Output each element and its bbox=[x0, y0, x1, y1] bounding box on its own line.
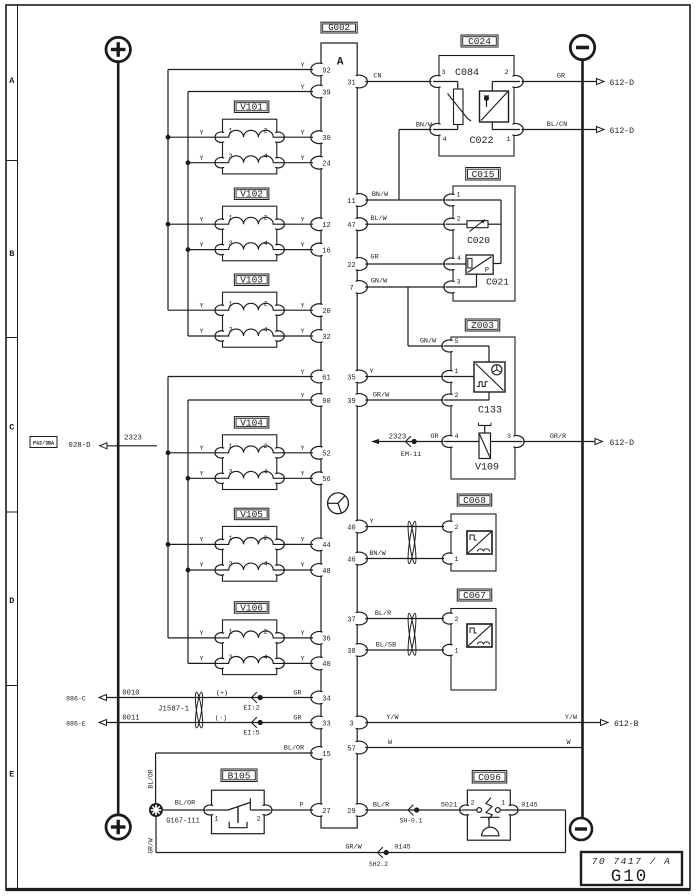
svg-text:1: 1 bbox=[506, 136, 510, 144]
injector V102 pin 2 notch bbox=[271, 220, 282, 229]
svg-text:028-D: 028-D bbox=[68, 442, 91, 450]
injector V103 pin 4 notch bbox=[271, 332, 282, 341]
svg-text:GR: GR bbox=[370, 254, 378, 262]
Z003 pin 2 notch bbox=[444, 395, 457, 405]
connector pin 47 (right edge) bbox=[350, 219, 365, 230]
injector V105 pin 3 notch bbox=[217, 566, 228, 575]
battery + symbol bottom bbox=[106, 815, 130, 839]
component C015 body bbox=[453, 186, 515, 301]
injector V104 coil 1-2 bbox=[217, 446, 286, 453]
svg-text:BN/W: BN/W bbox=[416, 122, 433, 130]
svg-text:Y: Y bbox=[199, 242, 203, 250]
svg-text:2: 2 bbox=[263, 128, 267, 136]
svg-text:V106: V106 bbox=[240, 602, 263, 613]
svg-text:886-E: 886-E bbox=[66, 720, 86, 727]
connector pin 39 (right edge) bbox=[350, 394, 365, 405]
svg-text:J1587-1: J1587-1 bbox=[158, 706, 190, 714]
svg-text:27: 27 bbox=[322, 808, 330, 816]
wire bus to V102 pin3 bbox=[188, 249, 217, 251]
svg-text:Y: Y bbox=[199, 471, 203, 479]
svg-text:Y: Y bbox=[199, 328, 203, 336]
svg-text:7: 7 bbox=[349, 285, 353, 293]
injector V103 pin 3 notch bbox=[217, 332, 228, 341]
injector V102 label bbox=[234, 188, 269, 200]
injector V102 pin 3 notch bbox=[217, 245, 228, 254]
C067 sensor sine icon bbox=[478, 642, 490, 645]
svg-text:5021: 5021 bbox=[441, 802, 457, 810]
svg-text:C020: C020 bbox=[467, 235, 490, 246]
wire V102 pin2 to connector bbox=[283, 223, 313, 225]
wire pin34 row (0010/GR) bbox=[107, 697, 313, 699]
C015 pin 2 notch bbox=[446, 219, 459, 229]
svg-text:2: 2 bbox=[263, 443, 267, 451]
svg-text:V101: V101 bbox=[240, 102, 263, 113]
wire 2323 interconnect bbox=[108, 445, 158, 447]
C024 pin 3 notch bbox=[432, 76, 445, 86]
injector V104 pin 4 notch bbox=[271, 474, 282, 483]
junction dot inner bus V105 bbox=[186, 568, 191, 573]
C021 pressure sensor body bbox=[466, 255, 493, 274]
wire bus to V105 pin1 bbox=[168, 543, 217, 545]
svg-text:16: 16 bbox=[322, 247, 330, 255]
C096 pin 2 notch bbox=[462, 806, 473, 814]
wire pin15 BL/OR bbox=[156, 752, 313, 754]
svg-text:37: 37 bbox=[347, 616, 355, 624]
svg-text:4: 4 bbox=[263, 654, 267, 662]
component C015 label bbox=[466, 168, 501, 181]
Z003 pin 3 notch bbox=[508, 436, 521, 446]
connector pin 22 (right edge) bbox=[350, 258, 365, 269]
svg-text:C022: C022 bbox=[469, 136, 493, 147]
svg-text:47: 47 bbox=[347, 222, 355, 230]
component C024 label bbox=[461, 35, 498, 47]
svg-text:SH2.2: SH2.2 bbox=[369, 861, 388, 868]
svg-text:Y: Y bbox=[199, 562, 203, 570]
C096 spark gap zigzag bbox=[486, 798, 492, 820]
wire V101 pin4 to connector bbox=[283, 162, 313, 164]
svg-text:Y: Y bbox=[199, 656, 203, 664]
svg-text:C068: C068 bbox=[463, 495, 486, 506]
connector pin 20 (left edge) bbox=[314, 305, 329, 316]
svg-text:Y: Y bbox=[300, 471, 304, 479]
wire V103 pin4 to connector bbox=[283, 335, 313, 337]
injector V105 pin 1 notch bbox=[217, 540, 228, 549]
C067 sensor pulse icon bbox=[470, 628, 477, 633]
wire C024 pin4 (BN/W) down bbox=[399, 129, 432, 131]
component C067 body bbox=[451, 609, 496, 691]
svg-text:C084: C084 bbox=[455, 68, 479, 79]
wire pin7 branch GN/W to Z003 pin5 bbox=[407, 287, 409, 346]
svg-text:0010: 0010 bbox=[122, 690, 139, 698]
injector V101 coil 1-2 bbox=[217, 130, 286, 137]
svg-text:V102: V102 bbox=[240, 189, 263, 200]
C021 pressure sensor wire bbox=[446, 263, 466, 265]
svg-text:70 7417 / A: 70 7417 / A bbox=[592, 856, 672, 867]
component ref P42/3BA box bbox=[30, 437, 57, 448]
connector pin 48 (left edge) bbox=[314, 564, 329, 575]
svg-text:31: 31 bbox=[347, 79, 355, 87]
junction dot inner bus V102 bbox=[186, 247, 191, 252]
Z003 pin4 internal wire bbox=[444, 441, 479, 443]
injector V106 coil 1-2 bbox=[217, 631, 286, 638]
wire Z003 pin3 to ground feed (GR/R) bbox=[523, 441, 596, 443]
svg-text:48: 48 bbox=[322, 568, 330, 576]
svg-text:46: 46 bbox=[347, 556, 355, 564]
injector V106 pin 2 notch bbox=[271, 634, 282, 643]
svg-text:2: 2 bbox=[457, 216, 461, 223]
svg-text:SH-0.1: SH-0.1 bbox=[399, 818, 422, 825]
svg-text:BN/W: BN/W bbox=[372, 191, 389, 199]
wire pin31 to C024 pin3 (CN) bbox=[365, 81, 431, 83]
wire bus to V101 pin3 bbox=[188, 162, 217, 164]
svg-text:612-B: 612-B bbox=[614, 720, 639, 729]
svg-text:39: 39 bbox=[322, 89, 330, 97]
svg-text:4: 4 bbox=[457, 255, 461, 262]
battery + symbol top bbox=[106, 37, 130, 61]
injector V102 coil 3-4 bbox=[217, 243, 286, 250]
svg-text:56: 56 bbox=[322, 476, 330, 484]
wire bus to V101 pin1 bbox=[168, 136, 217, 138]
C022 sensor probe icon bbox=[484, 96, 489, 101]
twisted pair symbol C067 bbox=[406, 613, 417, 656]
svg-text:Y: Y bbox=[300, 216, 304, 224]
injector V101 pin 4 notch bbox=[271, 158, 282, 167]
wire bus to V102 pin1 bbox=[168, 223, 217, 225]
svg-text:P42/3BA: P42/3BA bbox=[33, 441, 54, 447]
connector pin 30 (left edge) bbox=[314, 132, 329, 143]
svg-text:32: 32 bbox=[322, 334, 330, 342]
svg-text:G167-111: G167-111 bbox=[166, 818, 200, 826]
component C068 label bbox=[457, 494, 492, 506]
injector V106 pin 4 notch bbox=[271, 659, 282, 668]
injector V101 label bbox=[234, 101, 269, 113]
svg-text:CN: CN bbox=[373, 73, 381, 81]
connector pin 24 (left edge) bbox=[314, 157, 329, 168]
Z003 pin 4 notch bbox=[444, 436, 457, 446]
Z003 pin1 internal wire bbox=[444, 376, 474, 378]
connector pin 12 (left edge) bbox=[314, 219, 329, 230]
svg-text:2: 2 bbox=[263, 535, 267, 543]
injector V101 pin 1 notch bbox=[217, 133, 228, 142]
svg-text:Y: Y bbox=[300, 129, 304, 137]
svg-text:92: 92 bbox=[322, 67, 330, 75]
C068 sensor body bbox=[467, 531, 492, 554]
interconnect arrow 612-D (row1) bbox=[597, 79, 605, 85]
svg-text:A: A bbox=[9, 76, 15, 86]
injector V105 pin 2 notch bbox=[271, 540, 282, 549]
svg-text:GR/W: GR/W bbox=[373, 392, 390, 400]
svg-text:22: 22 bbox=[347, 262, 355, 270]
wire pin7 to C015 pin3 (GN/W) bbox=[365, 286, 445, 288]
wire pin39 to inner bus bbox=[188, 91, 313, 93]
interconnect arrow 612-B bbox=[601, 720, 609, 726]
injector V106 pin 3 notch bbox=[217, 659, 228, 668]
splice chevron EI:2 bbox=[252, 692, 257, 703]
wire bus to V103 pin3 bbox=[188, 335, 217, 337]
C022 sensor rail bbox=[491, 82, 493, 92]
C068 sensor sine icon bbox=[478, 549, 490, 552]
component C068 body bbox=[451, 514, 496, 571]
svg-text:V109: V109 bbox=[475, 463, 499, 474]
svg-text:EI:2: EI:2 bbox=[243, 705, 259, 713]
svg-text:39: 39 bbox=[347, 398, 355, 406]
connector pin 57 (right edge) bbox=[350, 742, 365, 753]
connector pin 56 (left edge) bbox=[314, 473, 329, 484]
V109 solenoid diagonal bbox=[480, 434, 491, 458]
svg-text:G10: G10 bbox=[611, 867, 649, 887]
svg-text:30: 30 bbox=[322, 135, 330, 143]
svg-text:Y: Y bbox=[300, 84, 304, 92]
svg-text:1: 1 bbox=[215, 816, 219, 823]
C133 stepper motor circle bbox=[492, 365, 502, 375]
svg-text:5: 5 bbox=[455, 338, 459, 345]
connector pin 27 (left edge) bbox=[314, 804, 329, 815]
injector V105 body bbox=[223, 526, 277, 581]
C015 pin 3 notch bbox=[446, 282, 459, 292]
svg-text:Y: Y bbox=[300, 62, 304, 70]
connector pin 61 (left edge) bbox=[314, 371, 329, 382]
svg-text:BL/CN: BL/CN bbox=[547, 121, 567, 129]
svg-text:2: 2 bbox=[263, 301, 267, 309]
interconnect arrow 612-D (row3) bbox=[595, 439, 603, 445]
svg-text:4: 4 bbox=[442, 136, 446, 144]
svg-text:Y/W: Y/W bbox=[386, 714, 399, 722]
C067 pin 1 notch bbox=[445, 645, 457, 655]
svg-text:A: A bbox=[337, 57, 344, 69]
margin divider 4 bbox=[6, 685, 18, 687]
svg-text:Y: Y bbox=[300, 242, 304, 250]
svg-text:Y: Y bbox=[300, 562, 304, 570]
C020 temp sensor arrow bbox=[470, 220, 486, 232]
injector V103 pin 1 notch bbox=[217, 306, 228, 315]
svg-text:GR: GR bbox=[557, 73, 565, 81]
injector V103 coil 3-4 bbox=[217, 329, 286, 336]
svg-text:Y: Y bbox=[300, 445, 304, 453]
injector V106 label bbox=[234, 602, 269, 614]
svg-text:Y: Y bbox=[300, 155, 304, 163]
connector pin 36 (left edge) bbox=[314, 632, 329, 643]
splice chevron SH2.2 bbox=[378, 847, 383, 858]
injector V104 body bbox=[223, 435, 277, 490]
B105 switch blade bbox=[228, 803, 250, 811]
svg-text:35: 35 bbox=[347, 374, 355, 382]
C022 sensor body bbox=[480, 91, 509, 122]
wire V105 pin2 to connector bbox=[283, 543, 313, 545]
svg-text:GN/W: GN/W bbox=[371, 278, 388, 286]
Z003 pin3 internal wire bbox=[491, 441, 523, 443]
C024 pin 4 notch bbox=[432, 124, 445, 134]
svg-text:11: 11 bbox=[347, 198, 355, 206]
injector V104 label bbox=[234, 417, 269, 429]
svg-text:612-D: 612-D bbox=[610, 127, 635, 136]
svg-text:GR: GR bbox=[293, 690, 301, 698]
svg-text:2: 2 bbox=[455, 524, 459, 531]
svg-text:2: 2 bbox=[257, 816, 261, 823]
splice chevron SH-0.1 bbox=[408, 805, 413, 816]
injector V101 body bbox=[223, 119, 277, 174]
svg-text:BL/SB: BL/SB bbox=[376, 642, 396, 650]
wire V106 pin4 to connector bbox=[283, 662, 313, 664]
C067 sensor diagonal bbox=[468, 625, 491, 646]
interconnect 886-E bbox=[99, 720, 107, 726]
connector pin 31 (right edge) bbox=[350, 76, 365, 87]
outer injector bus (top) bbox=[167, 70, 169, 311]
junction dot inner bus V101 bbox=[186, 160, 191, 165]
wire C096 pin1 return loop bbox=[517, 809, 566, 811]
injector V103 pin 2 notch bbox=[271, 306, 282, 315]
interconnect arrow EM-11 left bbox=[371, 439, 379, 444]
C068 sensor diagonal bbox=[468, 532, 491, 553]
wire V103 pin2 to connector bbox=[283, 309, 313, 311]
C022 sensor diagonal bbox=[481, 92, 508, 121]
B105 pin 1 notch bbox=[206, 806, 217, 814]
ground - symbol top bbox=[570, 35, 594, 59]
junction dot inner bus V104 bbox=[186, 476, 191, 481]
wire V101 pin2 to connector bbox=[283, 136, 313, 138]
connector pin 44 (left edge) bbox=[314, 539, 329, 550]
interconnect 886-C bbox=[99, 695, 107, 701]
C084 thermistor rail bbox=[457, 82, 459, 90]
component C096 label bbox=[472, 771, 507, 784]
connector pin 39 (left edge) bbox=[314, 86, 329, 97]
svg-text:C024: C024 bbox=[468, 36, 491, 47]
injector V105 pin 4 notch bbox=[271, 566, 282, 575]
C068 sensor pulse icon bbox=[470, 535, 477, 540]
component B105 body bbox=[212, 790, 265, 834]
svg-text:G002: G002 bbox=[328, 23, 350, 33]
component C024 body bbox=[439, 56, 514, 157]
junction dot outer bus V102 bbox=[166, 222, 171, 227]
margin divider 1 bbox=[6, 160, 18, 162]
injector V103 label bbox=[234, 274, 269, 286]
svg-text:D: D bbox=[9, 596, 14, 606]
svg-text:24: 24 bbox=[322, 161, 330, 169]
connector pin 7 (right edge) bbox=[350, 281, 365, 292]
svg-text:EM-11: EM-11 bbox=[401, 451, 421, 459]
Z003 pin 1 notch bbox=[444, 371, 457, 381]
wire C024 pin1 to ground feed (BL/CN) bbox=[522, 129, 597, 131]
wire pin22 to C015 pin4 (GR) bbox=[365, 263, 445, 265]
C020 temp sensor body bbox=[467, 221, 488, 228]
connector pin 3 (right edge) bbox=[350, 717, 365, 728]
svg-text:1: 1 bbox=[457, 192, 461, 199]
svg-text:15: 15 bbox=[322, 751, 330, 759]
svg-text:E: E bbox=[9, 770, 14, 780]
svg-text:34: 34 bbox=[322, 695, 330, 703]
C024 pin 2 notch bbox=[507, 76, 520, 86]
svg-text:Y: Y bbox=[300, 393, 304, 401]
outer injector bus (bottom) bbox=[167, 377, 169, 638]
wire pin11 to C015 pin1 (BN/W) bbox=[365, 199, 445, 201]
svg-text:Z003: Z003 bbox=[471, 320, 494, 331]
wire V102 pin4 to connector bbox=[283, 249, 313, 251]
svg-text:52: 52 bbox=[322, 451, 330, 459]
ECU connector G002 label bbox=[321, 22, 357, 33]
ground - bus wire bbox=[581, 60, 584, 817]
svg-text:0145: 0145 bbox=[521, 802, 537, 810]
C021 pin3 wire bbox=[446, 286, 477, 288]
injector V102 coil 1-2 bbox=[217, 217, 286, 224]
injector V106 coil 3-4 bbox=[217, 657, 286, 664]
svg-text:B: B bbox=[9, 249, 14, 259]
wire V106 pin2 to connector bbox=[283, 637, 313, 639]
svg-text:2: 2 bbox=[471, 800, 475, 807]
wire pin33 row (0011/GR) bbox=[107, 722, 313, 724]
B105 pin 2 notch bbox=[259, 806, 270, 814]
wire pin3 to 612-B (Y/W) bbox=[365, 722, 600, 724]
svg-text:(+): (+) bbox=[216, 690, 228, 698]
svg-text:Y: Y bbox=[300, 328, 304, 336]
wire pin46 to C068 pin1 (BN/W) bbox=[365, 558, 444, 560]
svg-text:38: 38 bbox=[347, 648, 355, 656]
component C067 label bbox=[457, 589, 492, 601]
svg-text:4: 4 bbox=[263, 326, 267, 334]
injector V105 coil 1-2 bbox=[217, 538, 286, 545]
svg-text:EI:5: EI:5 bbox=[243, 730, 259, 738]
svg-text:Y: Y bbox=[199, 216, 203, 224]
inner injector bus (top) bbox=[187, 92, 189, 337]
Z003 pin5 internal wire bbox=[444, 345, 489, 347]
svg-text:BL/OR: BL/OR bbox=[148, 769, 155, 788]
C021 pressure sensor diagonal bbox=[468, 257, 492, 273]
splice chevron EI:5 bbox=[252, 717, 257, 728]
svg-text:C067: C067 bbox=[463, 590, 486, 601]
C133 stepper body bbox=[474, 362, 505, 392]
wire pin38 to C067 pin1 (BL/SB) bbox=[365, 649, 444, 651]
svg-text:12: 12 bbox=[322, 222, 330, 230]
svg-text:1: 1 bbox=[455, 648, 459, 655]
junction dot outer bus V105 bbox=[166, 542, 171, 547]
C096 pin 1 notch bbox=[505, 806, 516, 814]
battery + bus wire bbox=[117, 62, 120, 815]
wire C024 pin2 to ground feed (GR) bbox=[522, 81, 597, 83]
component B105 label bbox=[221, 769, 257, 782]
svg-text:36: 36 bbox=[322, 636, 330, 644]
C015 internal rail bbox=[446, 199, 501, 201]
svg-text:Y: Y bbox=[199, 445, 203, 453]
svg-text:Y: Y bbox=[369, 518, 373, 526]
svg-text:OR: OR bbox=[430, 433, 438, 441]
wire pin35 to Z003 pin1 (Y) bbox=[365, 376, 443, 378]
connector pin 37 (right edge) bbox=[350, 613, 365, 624]
wire bus to V106 pin3 bbox=[188, 662, 217, 664]
injector V101 pin 3 notch bbox=[217, 158, 228, 167]
wire pin92 to outer bus bbox=[168, 69, 313, 71]
svg-text:BL/W: BL/W bbox=[370, 215, 387, 223]
margin divider 2 bbox=[6, 337, 18, 339]
svg-text:B105: B105 bbox=[228, 771, 251, 782]
svg-text:3: 3 bbox=[507, 433, 511, 440]
wire pin40 to C068 pin2 (Y) bbox=[365, 526, 444, 528]
injector V105 coil 3-4 bbox=[217, 563, 286, 570]
wire splice to B105 pin1 (BL/OR) bbox=[163, 809, 205, 811]
svg-text:BN/W: BN/W bbox=[369, 550, 386, 558]
inner injector bus (bottom) bbox=[187, 400, 189, 663]
svg-text:C096: C096 bbox=[478, 772, 501, 783]
svg-text:3: 3 bbox=[349, 720, 353, 728]
svg-text:(-): (-) bbox=[215, 715, 227, 723]
svg-text:2: 2 bbox=[504, 69, 508, 77]
svg-text:40: 40 bbox=[347, 524, 355, 532]
svg-text:1: 1 bbox=[501, 800, 505, 807]
component C096 body bbox=[467, 790, 510, 840]
C084 thermistor body bbox=[454, 89, 464, 125]
twisted pair symbol J1587-1 bbox=[194, 692, 204, 728]
injector V104 pin 2 notch bbox=[271, 448, 282, 457]
svg-text:33: 33 bbox=[322, 720, 330, 728]
injector V102 pin 4 notch bbox=[271, 245, 282, 254]
wire pin57 to ground bus (W) bbox=[365, 747, 582, 749]
